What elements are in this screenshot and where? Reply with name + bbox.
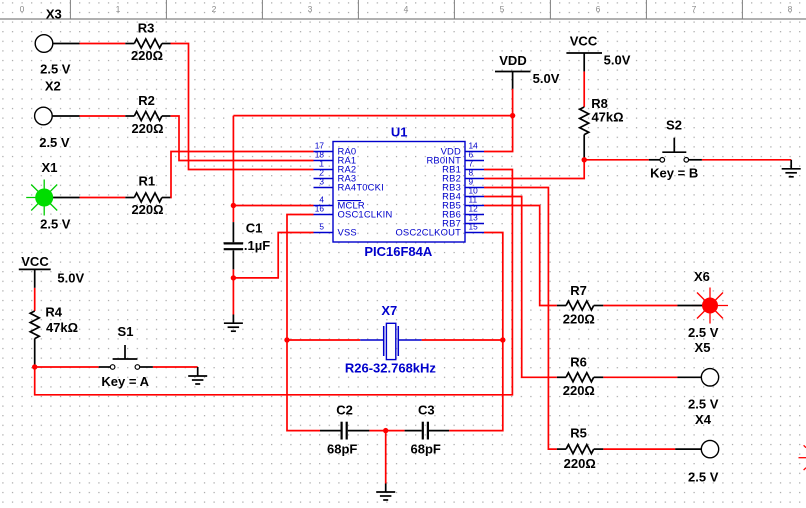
svg-text:R7: R7 (570, 283, 587, 298)
svg-text:5: 5 (319, 222, 324, 232)
svg-text:0: 0 (20, 4, 25, 14)
svg-text:2: 2 (212, 4, 217, 14)
svg-text:220Ω: 220Ω (131, 48, 163, 63)
svg-text:2.5 V: 2.5 V (688, 470, 719, 485)
svg-text:7: 7 (692, 4, 697, 14)
svg-text:68pF: 68pF (411, 442, 441, 457)
svg-text:X3: X3 (46, 6, 62, 21)
svg-text:VDD: VDD (499, 53, 526, 68)
svg-text:2.5 V: 2.5 V (39, 135, 70, 150)
svg-text:47kΩ: 47kΩ (46, 320, 78, 335)
svg-text:3: 3 (319, 177, 324, 187)
svg-text:X6: X6 (694, 269, 710, 284)
svg-text:5.0V: 5.0V (533, 71, 560, 86)
svg-text:X7: X7 (381, 303, 397, 318)
svg-text:S2: S2 (666, 118, 682, 133)
svg-text:X4: X4 (695, 412, 712, 427)
svg-text:R26-32.768kHz: R26-32.768kHz (345, 360, 437, 375)
svg-text:Key = A: Key = A (101, 374, 149, 389)
svg-text:U1: U1 (391, 125, 408, 140)
svg-text:47kΩ: 47kΩ (591, 110, 623, 125)
svg-text:220Ω: 220Ω (563, 383, 595, 398)
svg-text:PIC16F84A: PIC16F84A (364, 244, 433, 259)
svg-text:5: 5 (500, 4, 505, 14)
svg-text:1: 1 (116, 4, 121, 14)
svg-text:S1: S1 (118, 324, 134, 339)
svg-text:OSC2CLKOUT: OSC2CLKOUT (395, 227, 461, 238)
svg-text:C2: C2 (336, 403, 353, 418)
svg-text:6: 6 (596, 4, 601, 14)
svg-text:VSS: VSS (338, 227, 357, 238)
svg-text:2.5 V: 2.5 V (688, 397, 719, 412)
svg-text:R4: R4 (45, 305, 62, 320)
svg-text:3: 3 (308, 4, 313, 14)
svg-text:X2: X2 (45, 79, 61, 94)
svg-text:5.0V: 5.0V (604, 53, 631, 68)
svg-text:R5: R5 (570, 426, 587, 441)
svg-text:220Ω: 220Ω (564, 456, 596, 471)
svg-text:5.0V: 5.0V (57, 271, 84, 286)
svg-text:RA4T0CKI: RA4T0CKI (338, 182, 384, 193)
svg-text:VCC: VCC (21, 254, 49, 269)
svg-text:2.5 V: 2.5 V (688, 325, 719, 340)
svg-text:C1: C1 (246, 221, 263, 236)
svg-text:.1µF: .1µF (244, 238, 270, 253)
svg-text:220Ω: 220Ω (131, 121, 163, 136)
svg-text:C3: C3 (418, 403, 435, 418)
svg-text:2.5 V: 2.5 V (40, 217, 71, 232)
svg-text:8: 8 (788, 4, 793, 14)
svg-text:15: 15 (469, 222, 479, 232)
svg-text:R3: R3 (138, 21, 155, 36)
svg-text:68pF: 68pF (327, 442, 357, 457)
svg-text:VCC: VCC (570, 34, 598, 49)
svg-text:R1: R1 (138, 174, 155, 189)
svg-text:220Ω: 220Ω (563, 312, 595, 327)
svg-text:220Ω: 220Ω (131, 202, 163, 217)
svg-text:16: 16 (315, 204, 325, 214)
svg-text:4: 4 (404, 4, 409, 14)
svg-text:X5: X5 (695, 340, 711, 355)
svg-text:R6: R6 (570, 354, 587, 369)
svg-text:Key = B: Key = B (650, 165, 698, 180)
svg-text:X1: X1 (42, 160, 58, 175)
svg-text:OSC1CLKIN: OSC1CLKIN (338, 209, 393, 220)
svg-text:2.5 V: 2.5 V (40, 61, 71, 76)
svg-text:R2: R2 (138, 93, 155, 108)
